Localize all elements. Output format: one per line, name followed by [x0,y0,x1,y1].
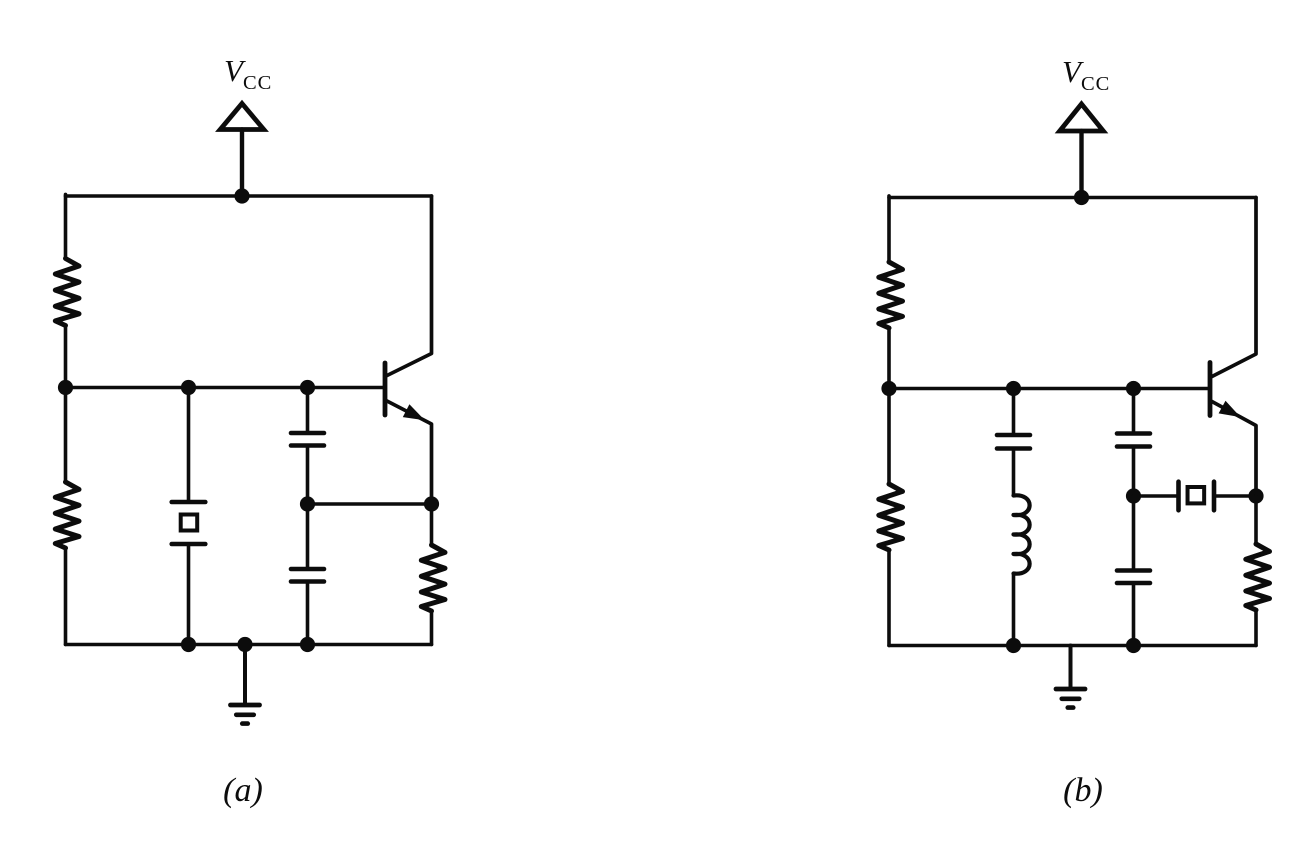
node VCC / top rail junction (b) [1074,190,1089,205]
caption (a) [223,772,263,809]
power symbol VCC (b) [1060,104,1104,131]
node bottom rail / ground (a) [237,637,252,652]
wire R1 to base rail (a) [64,326,68,388]
node base rail / C3 column (b) [1006,381,1021,396]
node base rail / crystal column (a) [181,380,196,395]
wire bottom rail (a) [66,643,432,647]
wire VCC stem (a) [240,130,244,197]
wire C5 to bottom rail (b) [1132,583,1136,646]
node bottom rail / L1 column (b) [1006,638,1021,653]
node VCC / top rail junction (a) [234,188,249,203]
node bottom rail / C2 column (a) [300,637,315,652]
wire left column upper (b) [887,196,891,262]
node crystal row right / emitter (b) [1248,488,1263,503]
wire emitter node row (a) [308,502,432,506]
node emitter column junction (a) [424,496,439,511]
resistor R1 [55,259,79,326]
wire R4 to base rail (b) [887,328,891,389]
wire C1 to emitter node (a) [306,446,310,505]
caption (b) [1063,772,1103,809]
resistor R3 [421,545,445,611]
svg-text:CC: CC [1081,73,1110,95]
power symbol VCC (a) [220,104,264,130]
wire L1 to bottom rail (b) [1012,574,1016,646]
capacitor C5 [1117,571,1150,584]
transistor Q2 [1210,198,1256,497]
wire C4 column upper (b) [1132,389,1136,434]
wire C3 to inductor (b) [1012,449,1016,496]
crystal Y1 [172,502,206,544]
wire R3 top lead (a) [430,504,434,545]
wire C1 column upper (a) [306,388,310,434]
svg-text:(a): (a) [223,772,263,809]
wire crystal right lead (b) [1214,494,1256,498]
transistor Q1 [385,196,432,504]
wire top rail (b) [889,196,1256,200]
wire C2 to bottom rail (a) [306,582,310,645]
wire left column lower (a) [64,388,68,483]
wire R6 top lead (b) [1254,496,1258,544]
svg-text:(b): (b) [1063,772,1103,809]
capacitor C1 [291,433,324,446]
wire C5 column upper (b) [1132,496,1136,571]
node base rail / C4 column (b) [1126,381,1141,396]
node base rail / C1 column (a) [300,380,315,395]
wire R6 to bottom rail (b) [1254,610,1258,646]
wire crystal column upper (a) [187,388,191,503]
wire bottom rail (b) [889,644,1256,648]
crystal Y2 [1179,482,1215,511]
capacitor C4 [1117,434,1150,447]
ground (b) [1056,646,1085,708]
node base rail left (b) [881,381,896,396]
ground (a) [231,645,260,724]
wire R2 to bottom rail (a) [64,548,68,645]
wire C2 column upper (a) [306,504,310,569]
wire crystal column lower (a) [187,544,191,645]
label VCC (a) [224,53,272,94]
wire left column upper (a) [64,194,68,258]
wire C4 to crystal node (b) [1132,447,1136,497]
wire R3 to bottom rail (a) [430,611,434,645]
wire crystal left lead (b) [1134,494,1179,498]
wire R5 to bottom rail (b) [887,550,891,646]
capacitor C3 [997,435,1030,449]
resistor R5 [879,484,903,550]
label VCC (b) [1062,54,1110,95]
wire left column lower (b) [887,389,891,485]
wire C3 column upper (b) [1012,389,1016,436]
capacitor C2 [291,569,324,582]
svg-text:CC: CC [243,72,272,94]
resistor R4 [879,262,903,328]
wire VCC stem (b) [1079,131,1083,198]
wire base rail (b) [889,387,1208,391]
node bottom rail / C5 column (b) [1126,638,1141,653]
node bottom rail / crystal column (a) [181,637,196,652]
resistor R6 [1246,544,1270,610]
node C1/C2 junction (a) [300,496,315,511]
wire top rail (a) [66,194,432,198]
inductor L1 [1014,495,1030,573]
resistor R2 [55,482,79,548]
wire base rail (a) [66,386,384,390]
node crystal row left (b) [1126,488,1141,503]
node base rail left (a) [58,380,73,395]
